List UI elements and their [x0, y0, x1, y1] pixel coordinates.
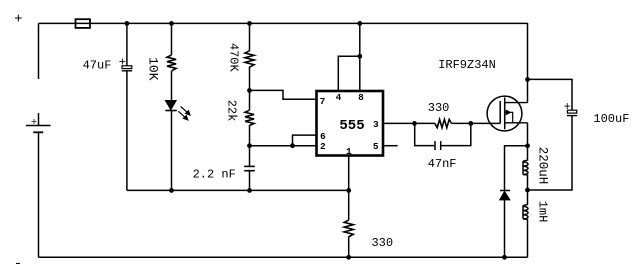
wire 220uH to junction	[527, 175, 529, 191]
wire bottom rail	[39, 256, 528, 258]
wire 47uF column upper	[126, 23, 128, 66]
svg-text:4: 4	[336, 92, 342, 103]
capacitor 47nF	[435, 141, 441, 150]
wire 47nF right branch	[441, 123, 470, 145]
wire top rail	[39, 22, 528, 24]
svg-text:1mH: 1mH	[535, 201, 549, 223]
svg-text:22k: 22k	[224, 100, 238, 122]
node drain diode junction	[525, 143, 530, 148]
node top rail 470K junction	[247, 21, 252, 26]
node 330 bottom rail junction	[346, 255, 351, 260]
wire 2.2nF top lead	[249, 146, 251, 166]
node 22K 2.2nF pin2 junction	[247, 143, 252, 148]
node pin4 pin8 junction	[357, 54, 362, 59]
node 220uH 1mH 100uF junction	[525, 188, 530, 193]
node source 100uF junction	[525, 77, 530, 82]
node diode bottom rail junction	[502, 255, 507, 260]
wire 10K to LED	[171, 71, 173, 101]
svg-text:2.2 nF: 2.2 nF	[193, 168, 236, 182]
wire pin8 to top rail	[359, 23, 361, 91]
wire pin1 to mid rail	[348, 156, 350, 191]
wire 47nF left branch	[415, 123, 435, 145]
wire 470K column upper	[249, 23, 251, 50]
inductor 1mH	[523, 205, 528, 219]
wire battery negative lead	[38, 132, 40, 257]
resistor 470K	[245, 51, 254, 68]
node top rail pin8 junction	[357, 21, 362, 26]
wire pin5 stub	[383, 145, 398, 147]
svg-text:7: 7	[320, 96, 326, 107]
wire mid rail to 330 bottom resistor	[348, 190, 350, 220]
svg-text:3: 3	[373, 119, 379, 130]
wire 1mH to bottom rail	[527, 219, 529, 257]
transistor Q1 MOSFET body circle	[487, 96, 522, 131]
resistor 10K	[167, 55, 176, 71]
svg-text:100uF: 100uF	[593, 112, 629, 126]
wire pin3 to node	[383, 122, 415, 124]
LED light arrows	[178, 106, 190, 120]
fuse F1	[76, 19, 91, 28]
wire MOSFET drain down	[527, 123, 529, 161]
svg-text:47uF: 47uF	[83, 58, 112, 72]
transistor Q1 source tab	[505, 102, 528, 104]
wire battery top lead	[38, 113, 40, 125]
wire right column top rail to source	[527, 23, 529, 103]
capacitor 100uF	[567, 110, 577, 115]
node 470K 22K pin7 junction	[247, 88, 252, 93]
svg-text:+: +	[564, 100, 571, 114]
wire 2.2nF bottom lead	[249, 171, 251, 191]
node pin6 branch junction	[290, 143, 295, 148]
svg-text:10K: 10K	[145, 57, 160, 81]
svg-text:2: 2	[320, 141, 326, 152]
node top rail 10K junction	[169, 21, 174, 26]
transistor Q1 body arrow	[505, 110, 513, 123]
svg-text:220uH: 220uH	[536, 147, 550, 185]
wire gate node to MOSFET gate	[471, 122, 500, 124]
wire pin6 connection	[293, 135, 317, 146]
wire diode anode to bottom rail	[504, 200, 506, 257]
transistor Q1 channel bar	[504, 98, 506, 130]
svg-text:1: 1	[346, 146, 352, 157]
resistor 330 bottom	[344, 220, 353, 237]
svg-text:47nF: 47nF	[428, 157, 457, 171]
op-amp U1 555 box	[317, 91, 384, 156]
transistor Q1 gate bar	[499, 101, 501, 123]
svg-text:-: -	[14, 256, 22, 272]
resistor 330 gate	[435, 119, 452, 127]
node mid rail LED junction	[169, 188, 174, 193]
svg-text:470K: 470K	[226, 43, 240, 73]
wire pin2 connection	[250, 145, 317, 147]
wire LED to mid rail	[171, 111, 173, 191]
svg-text:5: 5	[373, 141, 379, 152]
svg-text:555: 555	[339, 118, 364, 134]
diode D2	[500, 191, 510, 200]
wire 22K bottom to pin2 node	[249, 125, 251, 146]
svg-text:330: 330	[371, 236, 393, 250]
transistor Q1 drain tab	[505, 122, 528, 124]
battery B1 plates	[26, 126, 51, 133]
wire left battery positive lead upper	[38, 23, 40, 79]
wire mid rail	[127, 189, 349, 191]
wire 330 bottom resistor to bottom rail	[348, 237, 350, 257]
wire junction to 1mH	[527, 190, 529, 205]
svg-text:IRF9Z34N: IRF9Z34N	[438, 58, 496, 72]
svg-text:+: +	[31, 117, 37, 129]
wire 47uF column lower	[126, 71, 128, 191]
node pin3 junction	[412, 121, 417, 126]
svg-text:330: 330	[428, 101, 450, 115]
capacitor 47uF	[122, 66, 132, 71]
inductor 220uH	[523, 160, 528, 174]
wire 100uF bottom branch	[528, 116, 573, 190]
svg-text:+: +	[14, 11, 22, 27]
resistor 22K	[245, 110, 254, 125]
wire 100uF top branch	[528, 79, 573, 110]
wire pin7 connection	[250, 90, 317, 99]
wire 330 resistor to gate node	[451, 122, 470, 124]
wire LED column upper	[171, 23, 173, 55]
capacitor 2.2nF	[244, 166, 255, 170]
svg-text:+: +	[119, 55, 126, 69]
node gate junction	[468, 121, 473, 126]
wire pin3 node to 330 resistor	[415, 122, 435, 124]
LED D1	[165, 101, 176, 111]
svg-text:8: 8	[358, 92, 364, 103]
wire 470K to 22K junction	[249, 68, 251, 110]
node mid rail 2.2nF junction	[247, 188, 252, 193]
wire pin4 to pin8	[338, 56, 360, 91]
wire drain junction to diode	[505, 146, 528, 191]
node top rail 47uF junction	[125, 21, 130, 26]
node mid rail pin1 junction	[346, 188, 351, 193]
